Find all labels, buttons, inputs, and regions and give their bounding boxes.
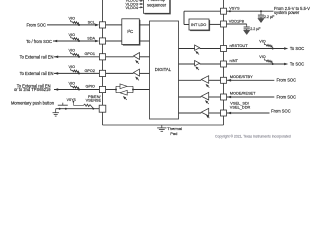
svg-text:or to 2nd TPS65219: or to 2nd TPS65219 bbox=[14, 87, 51, 92]
svg-text:To External rail EN: To External rail EN bbox=[20, 55, 54, 60]
svg-text:VSYS: VSYS bbox=[67, 98, 77, 102]
svg-text:DIGITAL: DIGITAL bbox=[155, 67, 172, 72]
svg-text:VSENSE: VSENSE bbox=[86, 99, 102, 103]
svg-text:From SOC: From SOC bbox=[277, 78, 297, 83]
svg-text:From SOC: From SOC bbox=[271, 109, 291, 114]
svg-text:VDD1P8: VDD1P8 bbox=[229, 18, 244, 23]
svg-text:Pad: Pad bbox=[170, 131, 177, 136]
svg-text:VSYS: VSYS bbox=[229, 5, 240, 10]
svg-text:To External rail EN: To External rail EN bbox=[20, 71, 54, 76]
svg-text:Momentary push button: Momentary push button bbox=[11, 100, 55, 105]
svg-text:VIO: VIO bbox=[259, 40, 266, 44]
svg-text:VIO: VIO bbox=[69, 17, 76, 21]
svg-text:VLDO4: VLDO4 bbox=[126, 6, 138, 10]
svg-text:SDA: SDA bbox=[87, 36, 95, 40]
svg-text:To SOC: To SOC bbox=[290, 61, 304, 66]
svg-text:nINT: nINT bbox=[230, 58, 239, 63]
svg-text:GPIO: GPIO bbox=[86, 85, 96, 89]
svg-text:Copyright © 2021, Texas Instru: Copyright © 2021, Texas Instruments Inco… bbox=[215, 135, 291, 139]
svg-text:sequencer: sequencer bbox=[147, 2, 167, 7]
svg-text:MODE/STBY: MODE/STBY bbox=[230, 74, 253, 79]
svg-text:To SOC: To SOC bbox=[290, 46, 304, 51]
svg-text:2.2 µF: 2.2 µF bbox=[250, 27, 261, 31]
svg-text:VIO: VIO bbox=[69, 65, 76, 69]
svg-text:2.2 µF: 2.2 µF bbox=[264, 15, 275, 19]
svg-text:VSEL_DDR: VSEL_DDR bbox=[230, 105, 251, 110]
svg-text:nRSTOUT: nRSTOUT bbox=[230, 43, 249, 48]
svg-text:GPO1: GPO1 bbox=[84, 52, 95, 56]
svg-text:VIO: VIO bbox=[69, 81, 76, 85]
svg-text:system power: system power bbox=[274, 10, 300, 15]
svg-text:SCL: SCL bbox=[88, 20, 95, 24]
svg-text:To / from SOC: To / from SOC bbox=[26, 39, 52, 44]
svg-text:From SOC: From SOC bbox=[277, 94, 297, 99]
svg-text:GPO2: GPO2 bbox=[84, 69, 95, 73]
svg-text:From SOC: From SOC bbox=[26, 23, 46, 28]
svg-text:VIO: VIO bbox=[69, 49, 76, 53]
svg-text:I²C: I²C bbox=[127, 29, 133, 34]
svg-text:VIO: VIO bbox=[259, 55, 266, 59]
svg-text:MODE/RESET: MODE/RESET bbox=[230, 91, 256, 96]
svg-text:INT LDO: INT LDO bbox=[191, 22, 206, 27]
svg-text:VIO: VIO bbox=[69, 33, 76, 37]
